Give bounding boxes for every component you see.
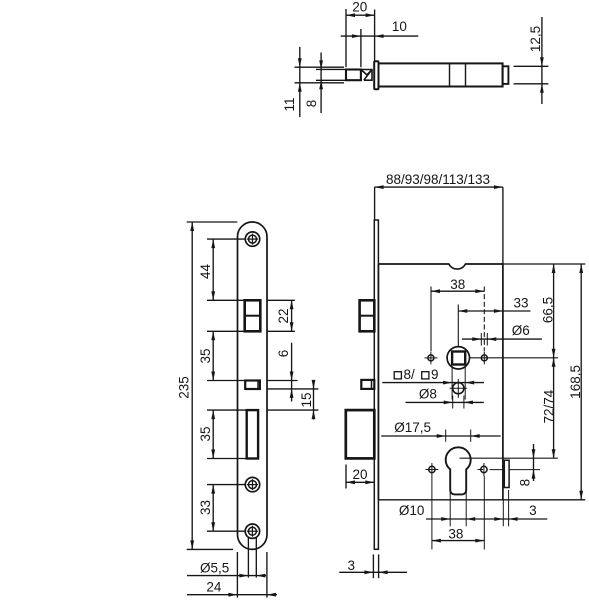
extension lines 12,5 [514,65,549,67]
square-9 symbol [422,372,429,379]
latch body end cap [503,66,509,84]
hole diameter 8 [453,383,464,394]
svg-text:12,5: 12,5 [528,26,543,52]
ext faceplate side edges [236,552,238,598]
latch bolt bevel [361,70,372,81]
svg-text:33: 33 [198,500,213,515]
ext deadbolt top right [267,409,319,411]
latch opening [245,300,261,331]
dim diameter 17,5 [381,435,501,437]
svg-text:3: 3 [529,503,537,518]
follower square hole [452,352,465,365]
dim square 8/9 [382,382,484,384]
svg-text:Ø5,5: Ø5,5 [200,560,229,575]
ext diameter 6 [480,333,482,346]
deadbolt opening [247,410,258,458]
svg-text:Ø17,5: Ø17,5 [394,420,431,435]
follower vertical extension [457,305,459,347]
latch opening divider [246,315,260,317]
ext top screw [207,238,246,240]
ext bottom screw [207,530,246,532]
dim 10 [341,35,419,37]
ext 38 right hole [483,287,485,352]
dim 88/93/98/113/133 [375,186,503,188]
lock case outline [378,264,503,500]
case bottom edge extended [378,499,585,501]
dim 22 [291,300,293,331]
hole left of follower [428,355,434,361]
ext latch top right [267,299,295,301]
ext deadbolt bottom left [207,458,247,460]
faceplate outline [238,222,268,549]
svg-text:8: 8 [517,479,532,487]
dim 33 left [212,485,214,532]
latch bolt head [346,70,361,81]
aux protrusion divider [371,381,373,389]
svg-text:8/: 8/ [404,367,416,382]
auxiliary bolt opening [245,381,260,390]
svg-text:6: 6 [276,350,291,358]
ext faceplate top [187,221,238,223]
ext aux top right [267,380,298,382]
ext aux top left [207,380,245,382]
dim 35 upper [212,331,214,380]
screw hole bottom [245,524,259,538]
dim 38 bottom [432,540,484,542]
svg-text:24: 24 [206,579,222,594]
svg-text:Ø10: Ø10 [399,503,425,518]
extension lines 11 [295,66,345,68]
svg-text:66,5: 66,5 [541,297,556,323]
dim 6 [291,343,293,402]
dim 20 [346,14,375,16]
holes centerline [470,357,558,359]
cylinder centerline [460,457,558,459]
latch protrusion divider [360,315,373,317]
svg-text:15: 15 [299,392,314,407]
auxiliary bolt protrusion [361,380,374,389]
svg-text:22: 22 [276,308,291,323]
ext faceplate bottom [187,548,233,550]
ext latch top left [207,299,245,301]
svg-text:88/93/98/113/133: 88/93/98/113/133 [386,172,490,187]
ext diameter 8 [452,396,454,409]
svg-text:Ø8: Ø8 [419,386,437,401]
forend strip side view [374,220,378,549]
latch body [379,63,503,86]
ext cylinder diameter [445,430,447,442]
extension line latch tip [360,29,362,67]
dim 11 [299,47,301,117]
svg-text:20: 20 [352,467,367,482]
euro profile cylinder hole [446,447,471,494]
square-8 symbol [394,372,401,379]
ext screw hole sides [247,537,249,578]
dim 66,5 [553,264,555,358]
ext backset left [374,187,376,220]
cylinder screw hole left [429,466,435,472]
cylinder screw hole right [481,466,487,472]
svg-text:168,5: 168,5 [568,365,583,399]
latch body division 1 [449,63,451,86]
svg-text:35: 35 [198,426,213,441]
svg-text:72/74: 72/74 [541,389,556,423]
ext deadbolt top left [207,409,247,411]
ext 38 bottom [431,476,433,550]
svg-text:9: 9 [431,367,439,382]
latch bolt protrusion [360,300,375,331]
dim 15 [313,381,315,420]
svg-text:3: 3 [348,558,356,573]
auxiliary divider [257,381,259,388]
deadbolt protrusion [346,410,375,458]
ext latch bottom right [267,330,295,332]
ext forend thickness [372,554,374,578]
svg-text:44: 44 [198,264,213,280]
ext 38 left hole [430,287,432,352]
dim 20 deadbolt [346,481,374,483]
case top edge extended [503,263,585,265]
dim 33 case [458,310,503,312]
dim 72/74 [553,358,555,458]
svg-text:38: 38 [448,527,463,542]
latch faceplate bar [374,61,378,89]
svg-text:10: 10 [392,19,407,34]
dim 44 [212,239,214,300]
svg-text:38: 38 [450,277,465,292]
svg-text:235: 235 [177,376,192,399]
ext backset right [502,187,504,264]
extension lines 8 [316,68,346,70]
dim diameter 8 [406,401,484,403]
ext follower square sides [451,366,453,400]
hole right of follower [481,355,487,361]
svg-text:8: 8 [304,100,319,108]
dim 24 [187,594,277,596]
ext aux bottom right [267,388,319,390]
ext mid screw [207,484,246,486]
svg-text:Ø6: Ø6 [512,323,530,338]
screw hole middle [245,477,259,491]
dim diameter 5,5 [187,575,266,577]
latch body division 2 [465,63,467,86]
cover plate right edge [504,460,509,487]
dim 168,5 [580,264,582,500]
dim 12,5 [541,17,543,104]
dim 235 [191,222,193,549]
dim 38 top [431,290,484,292]
svg-text:35: 35 [198,348,213,363]
extension line 20-left [345,9,347,67]
svg-text:20: 20 [352,0,367,15]
dim diameter 6 [462,338,542,340]
dim 3 forend [339,571,407,573]
screw hole top [245,232,259,246]
ext latch bottom left [207,330,245,332]
ext deadbolt face [345,465,347,489]
dim 35 lower [212,410,214,458]
svg-text:33: 33 [513,295,528,310]
dim 8 cylinder offset [533,444,535,481]
ext 8 lower [490,469,541,471]
follower circle [447,347,469,369]
extension line faceplate [374,10,376,62]
ext 3 right [502,500,504,527]
svg-text:11: 11 [282,97,297,111]
ext diameter 10 [449,489,451,526]
dim 8 [320,53,322,114]
dim diameter 10 and 3 [426,518,547,520]
